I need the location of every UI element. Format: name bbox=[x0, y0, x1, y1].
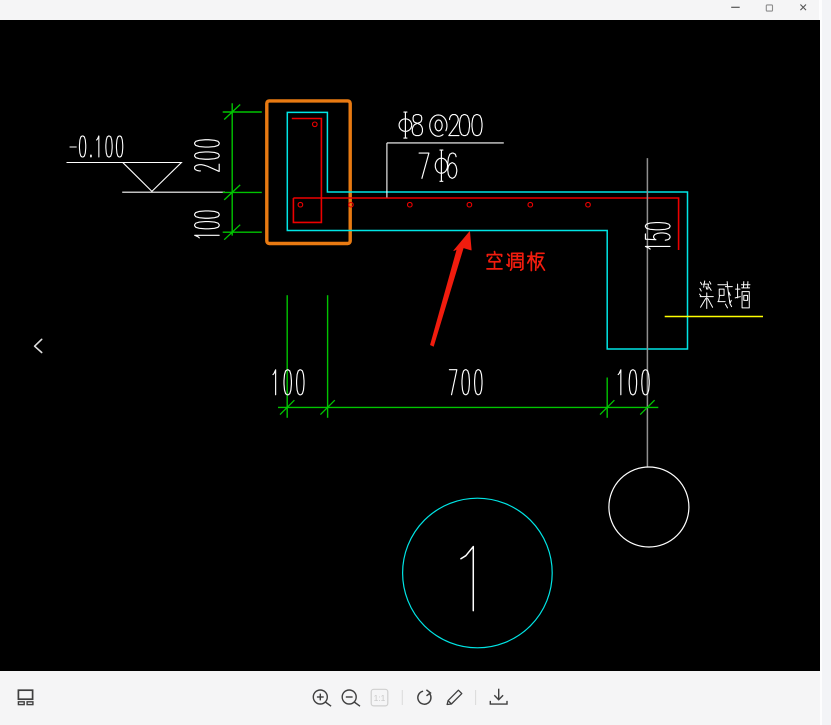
bottom dim tick 2 bbox=[320, 400, 334, 414]
zoom in icon bbox=[313, 690, 331, 706]
dim text 200 rotated bbox=[195, 164, 220, 171]
left dimension vertical line bbox=[231, 103, 233, 235]
minimize button bbox=[731, 6, 740, 8]
separator bbox=[401, 690, 403, 705]
level mark -0.100 text bbox=[70, 146, 76, 148]
dim text 100 rotated bbox=[195, 235, 220, 238]
separator bbox=[475, 690, 477, 705]
label beam-or-wall yellow leader bbox=[665, 316, 763, 318]
bottom dim tick 1 bbox=[280, 400, 294, 414]
close button bbox=[800, 5, 806, 11]
rebar top hook red bbox=[292, 119, 322, 223]
bottom dim tick 4 bbox=[640, 400, 654, 414]
grey center line bbox=[646, 158, 648, 467]
orange highlight box bbox=[267, 101, 350, 244]
label air-conditioner slab text red bbox=[487, 252, 502, 269]
svg-text:1:1: 1:1 bbox=[374, 693, 386, 703]
rebar circle 4 bbox=[467, 202, 472, 207]
wall center circle white bbox=[609, 467, 689, 547]
slab outline cyan bbox=[287, 112, 687, 349]
bottom dim extension line B bbox=[327, 295, 329, 418]
carousel previous chevron bbox=[35, 339, 42, 352]
left dim tick top bbox=[224, 105, 240, 120]
detail bubble circle cyan bbox=[403, 498, 553, 648]
left dim tick bottom bbox=[224, 225, 240, 240]
pen icon bbox=[447, 690, 462, 704]
rebar circle 2 bbox=[349, 202, 354, 207]
bottom toolbar bbox=[0, 671, 820, 725]
zoom out icon bbox=[342, 690, 360, 706]
rebar circle 5 bbox=[528, 202, 533, 207]
label leader line vertical bbox=[386, 143, 388, 198]
left dim extension line top bbox=[223, 111, 262, 113]
level mark lower line bbox=[122, 191, 225, 193]
right side strip bbox=[819, 0, 831, 725]
rotate icon bbox=[418, 690, 431, 704]
left dim tick middle bbox=[224, 185, 240, 200]
label Phi8 at 200 bbox=[399, 112, 412, 138]
left dim extension line middle bbox=[223, 191, 262, 193]
label 7 Phi6 bbox=[419, 153, 429, 178]
bottom dimension line bbox=[278, 406, 658, 408]
download icon bbox=[490, 689, 507, 704]
window title bar bbox=[0, 0, 820, 20]
level mark upper line bbox=[67, 162, 182, 164]
dim text 100 right bbox=[618, 370, 621, 395]
dim text 150 rotated bbox=[645, 246, 670, 249]
red annotation arrow bbox=[431, 232, 472, 346]
1:1 ratio button disabled bbox=[371, 689, 388, 706]
maximize button bbox=[766, 5, 772, 11]
label leader line horizontal bbox=[387, 142, 504, 144]
dim text 700 bbox=[449, 370, 456, 395]
rebar circle top bbox=[313, 122, 318, 127]
label beam-or-wall text bbox=[700, 281, 714, 309]
left dim extension line bottom bbox=[223, 231, 262, 233]
rebar circle 3 bbox=[408, 202, 413, 207]
bottom dim extension line C bbox=[606, 378, 608, 418]
detail number 1 bbox=[461, 547, 473, 611]
bottom dim tick 3 bbox=[600, 400, 614, 414]
bottom dim extension line A bbox=[286, 295, 288, 418]
rebar circle 6 bbox=[586, 202, 591, 207]
rebar main bar red bbox=[293, 198, 678, 250]
level mark triangle bbox=[123, 163, 182, 192]
page thumbnail icon bbox=[18, 690, 33, 704]
dim text 100 left bbox=[273, 370, 276, 395]
rebar circle 1 bbox=[298, 202, 303, 207]
